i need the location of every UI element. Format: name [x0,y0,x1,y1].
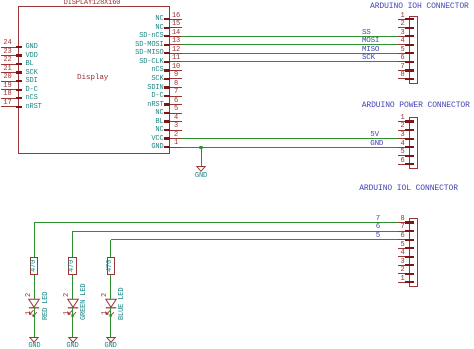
wire net 5V [182,138,398,139]
label RED LED [43,292,50,320]
net label 5 [376,233,380,241]
wire LED to ground [110,308,111,338]
display pin 16 NC [0,0,474,1]
resistor R1 470 [0,0,474,1]
display pin 5 NC [0,0,474,1]
display pin 24 GND [0,0,474,1]
display pin 7 D-C [0,0,474,1]
wire GND drop [201,147,202,166]
wire net GND [182,147,398,148]
title ARDUINO IOH CONNECTOR [370,3,469,11]
display value label DISPLAY128X160 [32,0,152,7]
wire RED LED vertical to resistor [34,223,35,257]
resistor R2 470 [0,0,474,1]
connector J-IOH body [409,16,418,84]
ground label GND [51,343,171,349]
wire resistor to LED [34,275,35,299]
PWR connector pin 3 [0,0,474,1]
display pin 11 SD-CLK [0,0,474,1]
wire LED to ground [72,308,73,338]
PWR connector pin 6 [0,0,474,1]
resistor R3 470 [0,0,474,1]
net label MISO [362,47,379,55]
display pin 23 VDD [0,0,474,1]
display pin 19 D-C [0,0,474,1]
display pin 18 nCS [0,0,474,1]
IOH connector pin 2 [0,0,474,1]
display pin 17 nRST [0,0,474,1]
ground symbol under GREEN LED [64,334,82,346]
ground label GND [0,343,94,349]
IOH connector pin 5 [0,0,474,1]
net label 7 [376,216,380,224]
IOL connector pin 2 [0,0,474,1]
IOL connector pin 4 [0,0,474,1]
display pin 8 SDIN [0,0,474,1]
IOH connector pin 6 [0,0,474,1]
ground symbol GND [192,163,210,175]
display refdes Display [77,75,108,83]
display pin 1 GND [0,0,474,1]
ground label GND [141,173,261,180]
net label 5V [370,132,379,140]
display pin 6 nRST [0,0,474,1]
IOH connector pin 4 [0,0,474,1]
label GREEN LED [81,284,88,320]
wire net BLUE LED horizontal [111,239,398,240]
wire net MOSI [182,44,398,45]
IOL connector pin 5 [0,0,474,1]
display pin 12 SD-MISO [0,0,474,1]
wire net MISO [182,53,398,54]
display pin 21 SCK [0,0,474,1]
display pin 9 SCK [0,0,474,1]
net label 6 [376,224,380,232]
IOL connector pin 6 [0,0,474,1]
wire net SCK [182,61,398,62]
junction on GND net [199,146,202,149]
display pin 13 SD-MOSI [0,0,474,1]
LED D3 BLUE LED [0,0,474,1]
display pin 2 VCC [0,0,474,1]
title ARDUINO IOL CONNECTOR [359,185,458,193]
ground symbol under BLUE LED [102,334,120,346]
wire resistor to LED [110,275,111,299]
IOL connector pin 7 [0,0,474,1]
IOH connector pin 7 [0,0,474,1]
display pin 3 NC [0,0,474,1]
display pin 10 nCS [0,0,474,1]
IOH connector pin 1 [0,0,474,1]
IOH connector pin 8 [0,0,474,1]
net label GND [370,141,383,149]
PWR connector pin 2 [0,0,474,1]
display pin 4 BL [0,0,474,1]
wire net RED LED horizontal [34,222,398,223]
wire BLUE LED vertical to resistor [110,240,111,257]
wire LED to ground [34,308,35,338]
net label SS [362,30,371,38]
PWR connector pin 1 [0,0,474,1]
display pin 14 SD-nCS [0,0,474,1]
IOL connector pin 3 [0,0,474,1]
display pin 20 SDI [0,0,474,1]
ground label GND [13,343,133,349]
net label SCK [362,55,375,63]
display pin 15 NC [0,0,474,1]
LED D2 GREEN LED [0,0,474,1]
display pin 22 BL [0,0,474,1]
label BLUE LED [119,288,126,320]
wire net SS [182,36,398,37]
display module U1 body [18,6,171,154]
LED D1 RED LED [0,0,474,1]
net label MOSI [362,38,379,46]
IOL connector pin 8 [0,0,474,1]
wire net GREEN LED horizontal [73,231,398,232]
wire resistor to LED [72,275,73,299]
connector J-IOL body [409,218,418,287]
ground symbol under RED LED [25,334,43,346]
PWR connector pin 4 [0,0,474,1]
PWR connector pin 5 [0,0,474,1]
IOH connector pin 3 [0,0,474,1]
title ARDUINO POWER CONNECTOR [362,102,470,110]
IOL connector pin 1 [0,0,474,1]
connector J-PWR body [409,117,418,169]
wire GREEN LED vertical to resistor [72,231,73,257]
